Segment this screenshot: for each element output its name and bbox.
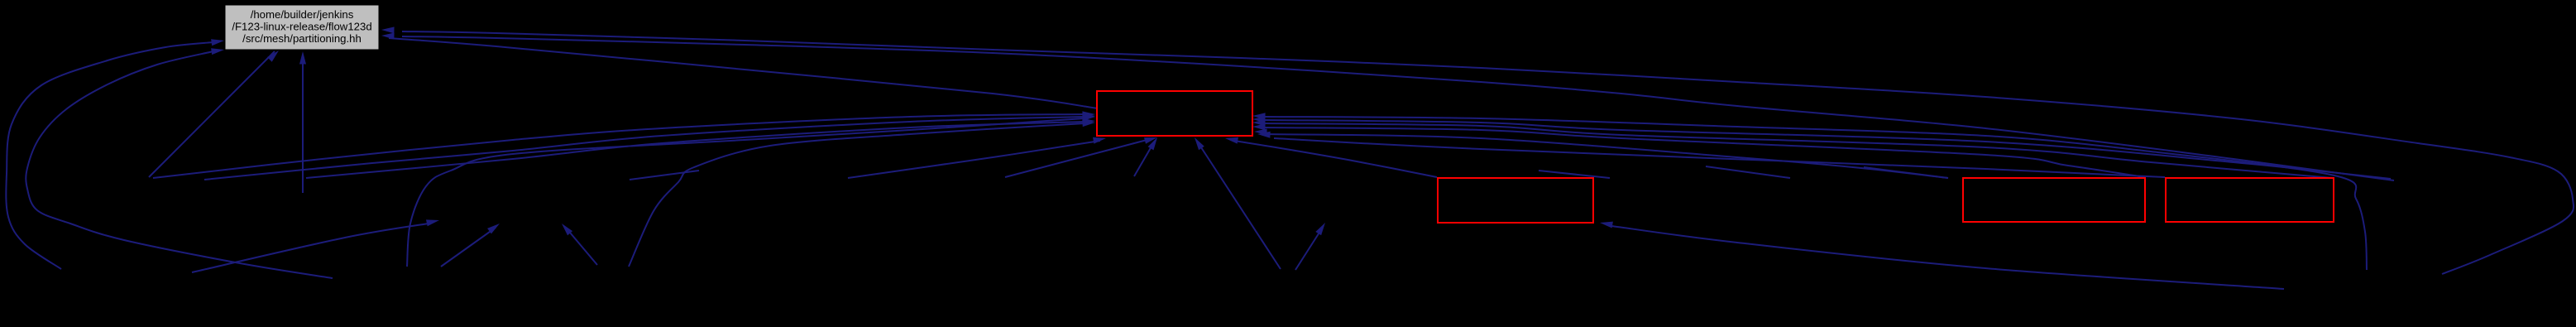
edge: bottom node -> R1 (C-curve 2) xyxy=(629,120,1095,267)
edge: hidden node -> R1 (right 5) xyxy=(1254,128,1948,178)
edge: bottom node -> R2 (long right) xyxy=(1600,222,2284,289)
svg-text:/home/builder/jenkins: /home/builder/jenkins xyxy=(251,8,354,21)
edge: bottom node -> hidden M1 (c) xyxy=(562,224,597,265)
edge: R2 -> R1 xyxy=(1225,137,1437,177)
edge: hidden node -> R1 (line c) xyxy=(306,118,1095,178)
edge: bottom-right node -> R1 (riser) xyxy=(1252,113,2367,270)
node: current file /src/mesh/partitioning.hh (grey) xyxy=(225,5,379,50)
edge: bottom-right node -> partitioning.hh (horseshoe) xyxy=(381,26,2574,274)
node: R3 truncated (red) xyxy=(1963,178,2145,222)
edge: hidden node -> partitioning.hh (vertical) xyxy=(299,51,306,193)
edge segment: hidden -> hidden (left of R3) xyxy=(1706,166,1790,178)
edge: bottom node -> hidden M3 xyxy=(1295,223,1325,270)
svg-text:/src/mesh/partitioning.hh: /src/mesh/partitioning.hh xyxy=(242,32,362,45)
edge: hidden node -> R1 (bottom-left corner) xyxy=(848,137,1106,178)
svg-text:/F123-linux-release/flow123d: /F123-linux-release/flow123d xyxy=(232,21,371,33)
edge: hidden left node -> R1 (line b) xyxy=(204,113,1095,180)
edge: from grey-right cluster -> R1 left top xyxy=(389,38,1098,108)
edge segment: hidden -> hidden (into R3 corner) xyxy=(1864,167,1948,178)
node: R4 truncated (red) xyxy=(2166,178,2334,222)
edge: hidden node -> partitioning.hh (steep) xyxy=(149,50,279,177)
edge: bottom node -> hidden M1 (b) xyxy=(441,224,500,267)
edge: hidden far-left node -> R1 (line a) xyxy=(153,111,1095,178)
edge: R3 -> R1 (right 4) xyxy=(1252,123,2145,177)
edge: bottom-left node -> hidden M1 xyxy=(192,219,439,272)
edge: hidden node -> R1 (right 3) xyxy=(1252,119,2333,178)
edge segment: hidden -> hidden M2 xyxy=(630,171,699,180)
edge: bottom node -> partitioning.hh (inner arc) xyxy=(26,48,333,278)
node: R2 truncated (red) xyxy=(1438,178,1593,223)
edge: hidden node -> R1 (bottom 1 steep) xyxy=(1134,137,1157,176)
edge: bottom-left node -> partitioning.hh (outer arc) xyxy=(6,39,224,269)
edge: bottom node -> R1 (C-curve 1) xyxy=(407,114,1095,267)
edge: bottom node -> R1 (bottom 2) xyxy=(1195,137,1281,269)
edge: hidden node -> R1 (bottom 1 shallow) xyxy=(1005,137,1157,177)
edge: far-right hidden node -> partitioning.hh (long) xyxy=(381,33,2394,181)
node: R1 truncated (red) xyxy=(1097,91,1252,136)
edge segment: hidden -> hidden (above R2) xyxy=(1539,171,1610,178)
edge: R4 -> R1 (corner) xyxy=(1257,132,2165,177)
edge: far-right hidden node -> R1 (right 2) xyxy=(1252,116,2391,179)
